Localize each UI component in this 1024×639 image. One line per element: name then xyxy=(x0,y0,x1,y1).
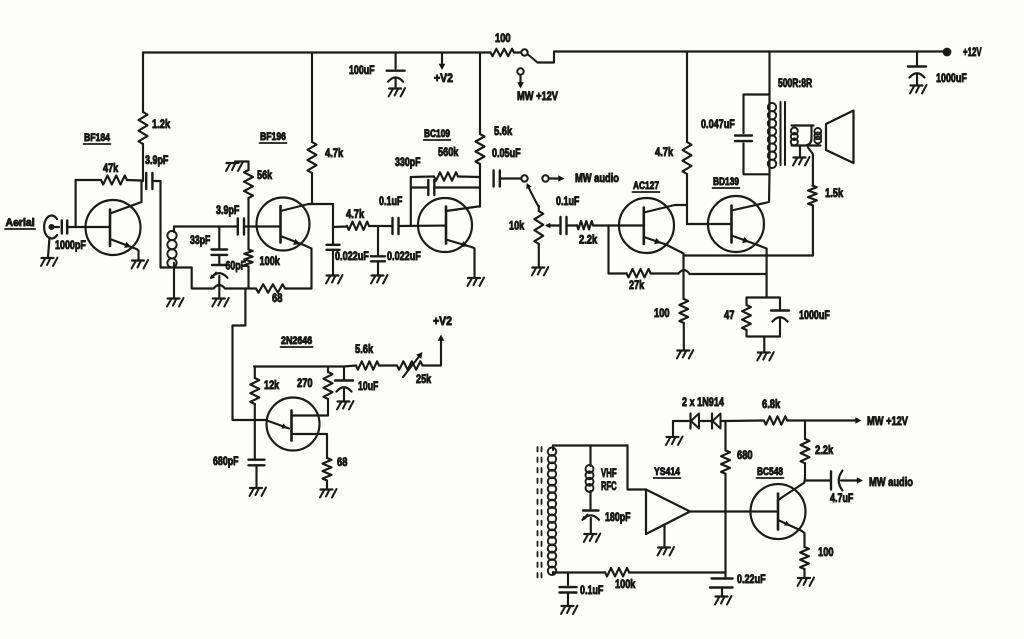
wire 2.2k to AC127 base xyxy=(593,224,644,226)
transistor BC109 xyxy=(418,198,472,252)
inductor L1 tuning coil xyxy=(167,227,176,268)
BC109 collector xyxy=(446,207,480,212)
wire BC109 emitter down xyxy=(473,248,475,278)
svg-text:56k: 56k xyxy=(257,168,272,182)
svg-text:3.9pF: 3.9pF xyxy=(145,153,168,167)
wire coil bottom ground stub xyxy=(173,268,175,298)
ground (100 BC548) xyxy=(798,578,815,587)
label 2.2k (BC548) xyxy=(815,443,833,457)
label 0.1uF (antenna) xyxy=(580,583,603,597)
ground (680pF) xyxy=(250,488,267,497)
label 0.047uF xyxy=(701,117,735,131)
wire to 4.7k coupling xyxy=(333,225,347,228)
svg-text:VHF: VHF xyxy=(601,466,617,480)
svg-text:0.1uF: 0.1uF xyxy=(556,194,579,208)
transistor BD139 xyxy=(708,196,764,252)
resistor 5.6k (UJT) xyxy=(344,361,379,369)
label 500R:8R xyxy=(778,76,812,90)
wire 100 to ground xyxy=(803,569,805,577)
wire box to ground xyxy=(763,337,765,352)
wire 56k top to ground xyxy=(235,162,249,171)
capacitor 0.047uF xyxy=(735,95,770,175)
wire BD139 emitter down xyxy=(754,244,767,298)
svg-text:0.022uF: 0.022uF xyxy=(387,249,421,263)
wire 100 to ground xyxy=(683,323,685,350)
BC109 emitter xyxy=(446,240,473,248)
label 47k xyxy=(103,161,118,175)
label 2N2646 xyxy=(281,335,313,347)
resistor 270 xyxy=(324,367,333,400)
svg-text:Aerial: Aerial xyxy=(6,217,35,229)
svg-text:270: 270 xyxy=(297,376,313,390)
capacitor 4.7uF xyxy=(831,471,843,491)
label 100uF xyxy=(349,63,375,77)
wire BF196 node to UJT xyxy=(233,289,268,421)
resistor 4.7k (AC127 collector) xyxy=(683,142,692,174)
wire AC127 emitter down xyxy=(666,245,684,300)
wire junction to 6.8k xyxy=(726,419,764,422)
wire tuned circuit bottom xyxy=(174,268,214,289)
wire 5.6k to 25k xyxy=(379,364,397,366)
label 27k xyxy=(629,278,644,292)
label BC109 xyxy=(424,128,451,140)
wire 5.6k branch (BC109) xyxy=(479,53,481,135)
svg-text:BC548: BC548 xyxy=(757,466,783,478)
svg-text:100: 100 xyxy=(495,31,511,45)
wire transformer primary feed xyxy=(768,52,770,102)
label 6.8k xyxy=(762,397,780,411)
switch contact (MW audio out) xyxy=(542,175,548,181)
ground (60pF) xyxy=(212,298,229,307)
wire BC548 emitter down xyxy=(801,531,805,548)
wire 68 to ground xyxy=(326,481,328,489)
svg-text:1000uF: 1000uF xyxy=(936,71,967,85)
wire 100k bar xyxy=(565,571,605,573)
svg-text:60pF: 60pF xyxy=(226,259,246,273)
wire 100uF branch xyxy=(395,53,397,69)
resistor 6.8k xyxy=(764,416,787,424)
wire 4.7k branch (BF196) xyxy=(311,53,313,143)
capacitor 180pF (trimmer) xyxy=(582,511,599,521)
wire collector node to 4.7uF xyxy=(805,479,831,481)
label 3.9pF xyxy=(145,153,168,167)
capacitor 3.9pF (BF196 in) xyxy=(238,219,244,235)
label +12V xyxy=(963,45,982,59)
capacitor 60pF (trimmer) xyxy=(210,265,227,279)
label VHF RFC xyxy=(601,466,617,493)
svg-text:BC109: BC109 xyxy=(424,128,450,140)
2N2646 base1 xyxy=(292,434,328,458)
svg-text:1000uF: 1000uF xyxy=(799,308,830,322)
label 4.7k (coupling) xyxy=(346,207,364,221)
label 680pF xyxy=(213,454,239,468)
terminal +12V xyxy=(944,49,951,56)
wire emitter junction bar xyxy=(684,254,813,256)
label 680 xyxy=(737,448,753,462)
svg-text:RFC: RFC xyxy=(601,479,617,493)
arrow +V2 (UJT) xyxy=(438,335,445,341)
speaker voice coil xyxy=(806,126,821,146)
label 10k xyxy=(509,219,524,233)
capacitor 1000uF (supply) xyxy=(908,67,926,85)
svg-text:0.1uF: 0.1uF xyxy=(379,194,402,208)
wire 0.05uF to switch xyxy=(500,177,521,179)
svg-text:680pF: 680pF xyxy=(213,454,239,468)
ground (BF184 emitter) xyxy=(132,260,149,269)
wire node to 0.1uF xyxy=(378,225,392,227)
wire 10k bottom xyxy=(538,244,540,267)
svg-text:1000pF: 1000pF xyxy=(55,238,86,252)
wire 60pF to ground xyxy=(218,276,220,298)
arrow to MW +12V xyxy=(517,76,524,89)
switch lever xyxy=(528,55,538,63)
wire diodes to junction xyxy=(721,420,726,422)
transformer primary xyxy=(768,101,776,174)
wire 27k right xyxy=(651,272,679,274)
capacitor 1000pF xyxy=(62,221,67,234)
resistor 5.6k (BC109 collector) xyxy=(476,134,485,164)
resistor 25k (preset) xyxy=(397,361,423,369)
diode D2 1N914 xyxy=(712,414,721,429)
ground (BC109 emitter) xyxy=(468,278,485,287)
label MW +12V (bottom) xyxy=(867,414,908,428)
label 330pF xyxy=(395,155,421,169)
ground (1000uF supply) xyxy=(910,85,927,94)
svg-text:MW +12V: MW +12V xyxy=(517,89,558,103)
25k preset arrow xyxy=(403,352,423,377)
wire 56k branch xyxy=(247,198,249,227)
svg-text:0.047uF: 0.047uF xyxy=(701,117,735,131)
AC127 collector xyxy=(644,205,687,213)
resistor 100k (AGC) xyxy=(605,568,629,576)
svg-text:YS414: YS414 xyxy=(654,466,681,478)
svg-text:BF196: BF196 xyxy=(260,131,286,143)
label 1000uF xyxy=(936,71,967,85)
wire wiper to 0.1uF xyxy=(553,224,560,226)
svg-text:+V2: +V2 xyxy=(433,314,452,328)
ground (10uF) xyxy=(337,401,354,410)
svg-text:AC127: AC127 xyxy=(633,180,659,192)
resistor 100 (BC548) xyxy=(800,547,809,569)
wire 27k left xyxy=(609,272,627,274)
wire hop over 60pF stem xyxy=(214,285,226,289)
svg-text:330pF: 330pF xyxy=(395,155,421,169)
capacitor 0.022uF (first) xyxy=(327,227,340,275)
wire 1.2k to BF184 collector xyxy=(142,144,144,202)
switch wiper from 10k xyxy=(526,183,539,207)
wire coil top to BF196 coupling xyxy=(174,225,237,227)
BD139 emitter xyxy=(732,236,754,244)
svg-text:12k: 12k xyxy=(264,378,279,392)
wire 4.7k to AC127 collector node xyxy=(686,174,688,224)
ferrite rod (dashed) xyxy=(538,447,542,578)
svg-text:100uF: 100uF xyxy=(349,63,375,77)
wire +12V rail right section xyxy=(538,52,948,63)
resistor 4.7k (coupling) xyxy=(347,222,369,230)
ground (68 UJT) xyxy=(320,489,337,498)
speaker xyxy=(826,111,854,164)
resistor 68 xyxy=(256,284,285,292)
svg-text:560k: 560k xyxy=(438,145,459,159)
wire 5.6k to BC109 node xyxy=(479,164,481,207)
label 560k xyxy=(438,145,459,159)
transistor 2N2646 xyxy=(267,398,320,451)
label 4.7uF xyxy=(830,491,853,505)
label +V2 xyxy=(434,71,453,85)
label 270 xyxy=(297,376,313,390)
wire BF196 emitter down xyxy=(305,246,312,289)
ground (diodes) xyxy=(666,437,683,446)
svg-text:47k: 47k xyxy=(103,161,118,175)
2N2646 base2 xyxy=(292,399,329,416)
wire 4.7k to node xyxy=(369,225,378,227)
resistor 2.2k (BC548) xyxy=(801,421,810,481)
ground (YS414) xyxy=(658,547,675,556)
label 4.7k (AC127) xyxy=(655,145,673,159)
svg-text:100: 100 xyxy=(654,306,670,320)
svg-text:180pF: 180pF xyxy=(605,510,631,524)
ground (180pF) xyxy=(584,534,601,543)
wire 6.8k to 2.2k node xyxy=(787,419,805,421)
label 0.1uF (volume) xyxy=(556,194,579,208)
svg-text:33pF: 33pF xyxy=(190,233,210,247)
transistor BF184 xyxy=(86,200,141,255)
ground (secondary) xyxy=(793,157,810,166)
BF196 collector xyxy=(281,204,334,211)
label 5.6k (UJT) xyxy=(355,342,373,356)
label 10uF xyxy=(358,379,378,393)
resistor 56k xyxy=(244,170,253,198)
label 12k xyxy=(264,378,279,392)
label 0.1uF (BC109 in) xyxy=(379,194,402,208)
label 56k xyxy=(257,168,272,182)
wire UJT top rail xyxy=(254,365,344,367)
ground (10k) xyxy=(532,267,549,276)
arrow MW +12V (bottom) xyxy=(805,417,862,424)
label 0.22uF xyxy=(737,572,766,586)
wire 0.1uF to BC109 base xyxy=(399,225,447,228)
wire 4.7k to BF196 collector xyxy=(311,173,313,204)
wire 68 to emitter xyxy=(285,287,312,289)
wire BD139 base xyxy=(687,223,732,225)
wire 47k to collector node xyxy=(127,179,141,182)
resistor 2.2k xyxy=(577,221,593,229)
capacitor 33pF xyxy=(212,250,228,255)
svg-text:100k: 100k xyxy=(260,254,281,268)
BC548 emitter xyxy=(778,520,801,531)
label 0.05uF xyxy=(492,146,521,160)
wire YS414 output xyxy=(690,510,778,512)
wire 33pF stub xyxy=(218,227,220,250)
label 2.2k xyxy=(579,233,597,247)
wire 1.5k to emitter bar xyxy=(812,205,814,255)
BF184 emitter xyxy=(110,239,137,249)
svg-text:2.2k: 2.2k xyxy=(579,233,597,247)
svg-text:MW audio: MW audio xyxy=(869,475,913,489)
label 100 xyxy=(495,31,511,45)
svg-text:BD139: BD139 xyxy=(713,176,739,188)
wire BF184 emitter down xyxy=(137,249,139,260)
svg-text:MW audio: MW audio xyxy=(575,171,619,185)
ground (0.22uF) xyxy=(715,596,732,605)
svg-text:2 x 1N914: 2 x 1N914 xyxy=(682,395,724,409)
resistor 4.7k (BF196 collector) xyxy=(308,142,317,173)
inductor MW antenna coil xyxy=(548,446,556,576)
wire 47-1000uF box xyxy=(747,298,781,337)
wire between diodes xyxy=(700,420,712,422)
label 68 (UJT) xyxy=(337,455,348,469)
arrow +V2 supply tap xyxy=(439,53,446,71)
ground (tuning coil) xyxy=(167,298,184,307)
label 100k (AGC) xyxy=(615,577,636,591)
wire feedback cap branch xyxy=(411,186,428,188)
svg-text:2.2k: 2.2k xyxy=(815,443,833,457)
wire to 68 resistor xyxy=(225,287,245,289)
svg-text:0.1uF: 0.1uF xyxy=(580,583,603,597)
label MW audio (bottom) xyxy=(869,475,913,489)
svg-text:2N2646: 2N2646 xyxy=(281,335,312,347)
10k wiper arrow xyxy=(545,223,553,229)
wire 4.7k branch (AC127) xyxy=(686,52,688,143)
capacitor 0.05uF xyxy=(494,171,500,187)
wire 100k to 0.22uF node xyxy=(629,571,726,573)
wire 330pF to collector node xyxy=(435,186,480,188)
wire 47k left xyxy=(76,179,101,181)
svg-text:MW +12V: MW +12V xyxy=(867,414,908,428)
wire feedback vertical xyxy=(410,177,412,226)
wire 180pF to ground xyxy=(590,518,592,533)
label 1000pF xyxy=(55,238,86,252)
resistor 100 (rail fuse) xyxy=(488,49,521,57)
label 1.2k xyxy=(152,117,170,131)
wire 33pF to 60pF xyxy=(218,255,220,264)
wire voice coil to 1.5k xyxy=(808,148,813,186)
label Aerial xyxy=(5,217,35,229)
label 2 x 1N914 xyxy=(682,395,724,409)
capacitor 3.9pF (BF184 out) xyxy=(146,173,152,189)
svg-text:68: 68 xyxy=(337,455,348,469)
inductor VHF RFC xyxy=(586,446,594,493)
capacitor 0.1uF (antenna) xyxy=(560,573,577,606)
transistor BF196 xyxy=(257,198,310,251)
svg-text:BF184: BF184 xyxy=(84,132,111,144)
svg-text:100: 100 xyxy=(818,545,834,559)
svg-text:4.7k: 4.7k xyxy=(325,146,343,160)
label 60pF xyxy=(226,259,246,273)
capacitor 0.22uF xyxy=(710,579,733,596)
svg-text:+12V: +12V xyxy=(963,45,982,59)
svg-text:500R:8R: 500R:8R xyxy=(778,76,812,90)
wire coil top xyxy=(553,444,628,446)
capacitor 100uF xyxy=(387,71,405,88)
wire 680 node to 0.22uF xyxy=(724,512,726,578)
svg-text:4.7uF: 4.7uF xyxy=(830,491,853,505)
svg-text:+V2: +V2 xyxy=(434,71,453,85)
svg-text:5.6k: 5.6k xyxy=(355,342,373,356)
label 5.6k xyxy=(494,124,512,138)
switch contact (MW audio pickup) xyxy=(521,175,527,181)
svg-text:0.022uF: 0.022uF xyxy=(335,249,369,263)
ground (100uF) xyxy=(389,88,406,97)
wire 68 left xyxy=(245,287,256,289)
svg-text:10k: 10k xyxy=(509,219,524,233)
wire diode ground branch xyxy=(673,421,689,436)
label YS414 xyxy=(654,466,681,478)
label 1.5k xyxy=(825,186,843,200)
label 100 (emitter) xyxy=(654,306,670,320)
BF196 emitter xyxy=(281,236,306,246)
svg-text:1.2k: 1.2k xyxy=(152,117,170,131)
wire 1000uF branch xyxy=(916,52,918,67)
label 3.9pF (BF196) xyxy=(216,203,239,217)
label MW audio xyxy=(575,171,619,185)
label 1000uF (bypass) xyxy=(799,308,830,322)
wire +12V rail left section xyxy=(143,51,488,53)
wire to YS414 input xyxy=(628,446,647,490)
label AC127 xyxy=(633,180,660,192)
svg-text:5.6k: 5.6k xyxy=(494,124,512,138)
label +V2 (UJT) xyxy=(433,314,452,328)
2N2646 emitter xyxy=(267,421,289,429)
resistor 12k xyxy=(250,367,259,421)
svg-text:1.5k: 1.5k xyxy=(825,186,843,200)
capacitor 0.1uF (volume) xyxy=(561,217,567,234)
svg-text:0.22uF: 0.22uF xyxy=(737,572,766,586)
capacitor 10uF xyxy=(335,367,353,401)
label BC548 xyxy=(757,466,784,478)
resistor 560k xyxy=(411,172,480,180)
BC548 collector xyxy=(778,481,805,501)
resistor 68 (UJT) xyxy=(323,458,332,481)
capacitor 1000uF (bypass) xyxy=(771,311,789,322)
label 100 (BC548) xyxy=(818,545,834,559)
label BF184 xyxy=(84,132,111,144)
resistor 100k (BF196 bias) xyxy=(244,227,252,289)
BF184 collector xyxy=(110,202,142,214)
capacitor 680pF xyxy=(249,420,265,487)
resistor 680 xyxy=(721,421,730,512)
diode D1 1N914 xyxy=(691,414,700,429)
wire collector down to output node xyxy=(332,204,334,227)
wire secondary to ground xyxy=(799,146,801,157)
label 0.022uF xyxy=(335,249,369,263)
wire 3.9pF to tuned circuit xyxy=(153,181,173,268)
svg-text:25k: 25k xyxy=(416,372,431,386)
wire 27k branch xyxy=(607,226,609,274)
svg-text:4.7k: 4.7k xyxy=(346,207,364,221)
label 4.7k xyxy=(325,146,343,160)
label 33pF xyxy=(190,233,210,247)
ground (100 emitter) xyxy=(677,350,694,359)
capacitor 330pF xyxy=(428,180,434,195)
resistor 27k xyxy=(627,269,651,277)
label 68 xyxy=(272,291,283,305)
amplifier YS414 xyxy=(646,490,690,535)
svg-text:68: 68 xyxy=(272,291,283,305)
wire aerial to 1000pF xyxy=(54,226,59,228)
wire 1000pF to BF184 base xyxy=(68,226,111,228)
switch contact (MW select upper) xyxy=(521,49,527,55)
transistor AC127 xyxy=(619,198,674,253)
svg-text:680: 680 xyxy=(737,448,753,462)
transformer core xyxy=(781,102,786,165)
label 100k (BF196 bias) xyxy=(260,254,281,268)
label MW +12V xyxy=(517,89,558,103)
ground (0.1uF antenna) xyxy=(561,606,578,615)
svg-text:6.8k: 6.8k xyxy=(762,397,780,411)
wire hop over emitter line xyxy=(679,270,690,274)
wire 3.9pF to BF196 base xyxy=(244,225,281,227)
